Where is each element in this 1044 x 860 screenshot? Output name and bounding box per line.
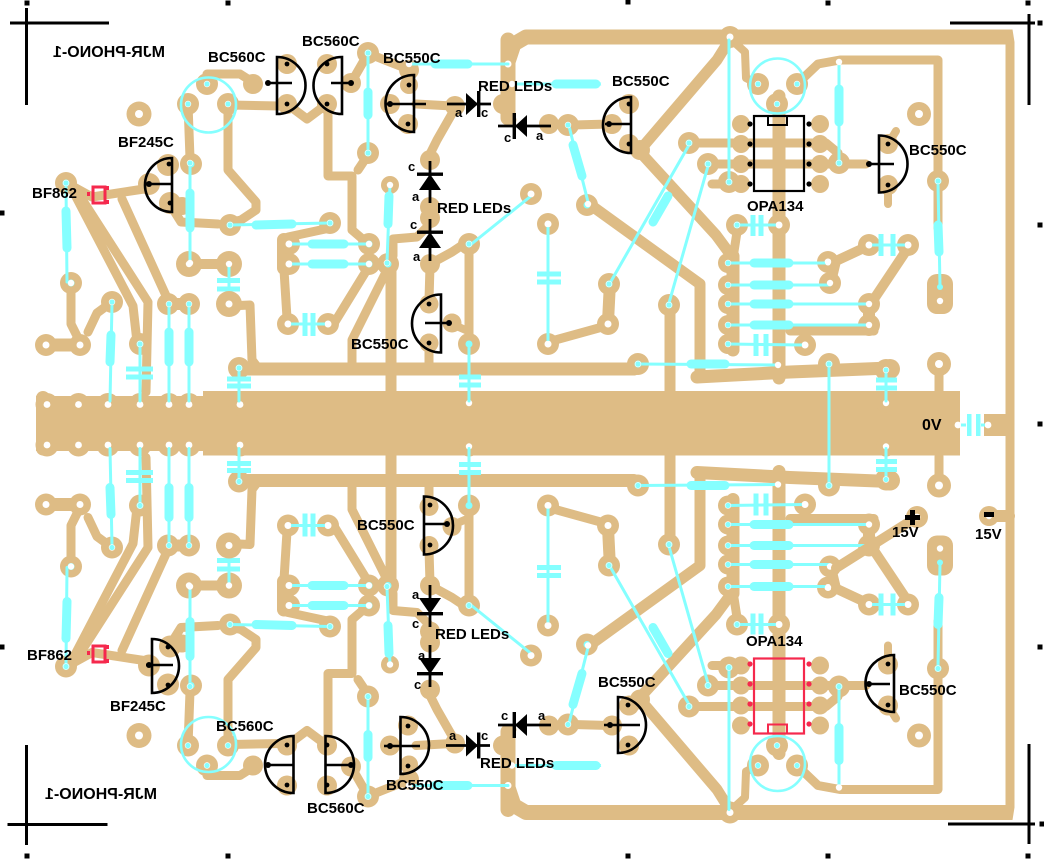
svg-text:MJR-PHONO-1: MJR-PHONO-1 (45, 786, 157, 803)
svg-text:BC560C: BC560C (307, 800, 365, 817)
svg-text:BF862: BF862 (32, 185, 77, 202)
svg-text:c: c (501, 708, 508, 723)
svg-text:15V: 15V (892, 524, 919, 541)
svg-text:BC550C: BC550C (386, 777, 444, 794)
svg-text:BF245C: BF245C (118, 134, 174, 151)
svg-text:BC550C: BC550C (909, 142, 967, 159)
svg-text:OPA134: OPA134 (746, 633, 803, 650)
svg-text:c: c (504, 130, 511, 145)
svg-text:BC560C: BC560C (216, 718, 274, 735)
svg-text:a: a (413, 249, 421, 264)
svg-text:0V: 0V (922, 417, 942, 434)
svg-text:a: a (412, 587, 420, 602)
svg-text:RED LEDs: RED LEDs (437, 200, 511, 217)
svg-text:a: a (449, 728, 457, 743)
svg-text:BC550C: BC550C (598, 674, 656, 691)
svg-text:RED LEDs: RED LEDs (435, 626, 509, 643)
svg-text:c: c (412, 616, 419, 631)
svg-text:15V: 15V (975, 526, 1002, 543)
svg-text:a: a (538, 708, 546, 723)
svg-text:c: c (410, 217, 417, 232)
svg-text:BF245C: BF245C (110, 698, 166, 715)
svg-text:c: c (408, 159, 415, 174)
svg-text:a: a (536, 128, 544, 143)
svg-text:RED LEDs: RED LEDs (480, 755, 554, 772)
svg-text:c: c (481, 105, 488, 120)
svg-text:BC550C: BC550C (357, 517, 415, 534)
svg-text:MJR-PHONO-1: MJR-PHONO-1 (53, 44, 165, 61)
svg-text:a: a (412, 189, 420, 204)
svg-text:BC550C: BC550C (612, 73, 670, 90)
svg-text:c: c (481, 728, 488, 743)
svg-text:a: a (418, 648, 426, 663)
svg-text:c: c (414, 677, 421, 692)
svg-text:BC560C: BC560C (208, 49, 266, 66)
svg-text:a: a (455, 105, 463, 120)
svg-text:BC560C: BC560C (302, 33, 360, 50)
svg-text:BC550C: BC550C (351, 336, 409, 353)
svg-text:BC550C: BC550C (383, 50, 441, 67)
svg-text:RED LEDs: RED LEDs (478, 78, 552, 95)
svg-text:BF862: BF862 (27, 647, 72, 664)
svg-text:BC550C: BC550C (899, 682, 957, 699)
svg-text:OPA134: OPA134 (747, 198, 804, 215)
